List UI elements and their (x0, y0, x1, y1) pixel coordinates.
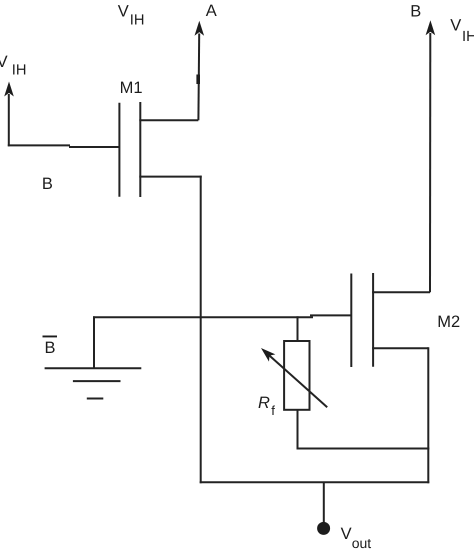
ground bar 2 (73, 380, 121, 382)
resistor Rf variable arrow shaft (269, 355, 328, 408)
wire: left VIH arrow shaft (8, 94, 10, 146)
wire: M2 source horizontal (372, 347, 428, 349)
resistor Rf bottom stub (297, 410, 299, 450)
wire: M1 drain horizontal (139, 119, 198, 121)
svg-text:out: out (352, 535, 372, 551)
svg-text:f: f (271, 403, 275, 418)
transistor M2 gate bar (350, 274, 352, 368)
ground bar 3 (87, 398, 104, 400)
svg-text:M2: M2 (437, 313, 460, 331)
svg-text:V: V (118, 3, 129, 21)
transistor M2 channel bar (372, 273, 374, 367)
resistor Rf body box (284, 341, 309, 410)
transistor M1 channel bar (139, 102, 141, 197)
arrowhead of Rf variable arrow (258, 344, 276, 361)
wire: M1 source horizontal (139, 176, 201, 178)
svg-text:IH: IH (130, 13, 145, 29)
transistor M1 gate bar (118, 103, 120, 197)
svg-text:V: V (0, 53, 8, 71)
svg-text:B: B (45, 339, 56, 357)
wire: M2 drain horizontal (372, 291, 430, 293)
arrowhead of node B arrow (426, 20, 436, 35)
wire: gate wire of M1 right segment (69, 146, 119, 148)
arrowhead of left VIH arrow (4, 82, 14, 97)
svg-text:B: B (410, 3, 421, 21)
svg-text:IH: IH (462, 29, 474, 45)
overline of B-bar label (43, 336, 58, 338)
svg-text:V: V (341, 525, 352, 543)
resistor Rf top stub (297, 316, 299, 341)
wire: bottom horizontal wire (200, 481, 430, 483)
wire: Rf bottom horizontal to right vertical (298, 448, 430, 450)
wire: vertical up to node B arrow (429, 33, 431, 292)
svg-text:M1: M1 (120, 79, 143, 97)
wire: vertical to node A (197, 34, 200, 121)
arrowhead of node A arrow (195, 21, 205, 36)
wire: right vertical from M2 source to bottom wire (427, 347, 429, 483)
junction dot Vout (317, 522, 330, 535)
svg-text:R: R (258, 394, 270, 412)
svg-text:B: B (42, 175, 53, 193)
svg-text:A: A (206, 2, 217, 20)
wire: Vout stub (323, 482, 325, 524)
wire: ground stub vertical (93, 316, 95, 368)
wire: gate wire of M1 left segment (8, 144, 70, 146)
wire: long left vertical from M1 source to bottom wire (200, 176, 202, 484)
svg-text:V: V (450, 16, 461, 34)
svg-text:IH: IH (12, 63, 27, 79)
wire: horizontal wire jog right segment to M2 gate (310, 314, 351, 316)
wire: horizontal wire from ground to M2 gate, left segment (93, 316, 313, 318)
artifact blob on node A wire (196, 75, 200, 85)
ground bar 1 (45, 367, 142, 369)
